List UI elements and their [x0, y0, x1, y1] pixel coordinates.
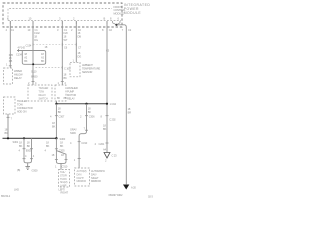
connector bracket over ground drops [23, 148, 34, 150]
wire W2 from pin 10 [32, 21, 34, 85]
svg-text:WASHER: WASHER [67, 86, 78, 90]
pin 10 tick [32, 21, 34, 24]
ground bus dot at 24 [23, 137, 25, 139]
svg-text:BK: BK [46, 144, 50, 148]
C134 tick on W4 [75, 43, 77, 46]
ground drop wire G1 [23, 138, 25, 158]
W10 connector bracket [85, 115, 88, 117]
merge arcs into box A [56, 160, 66, 170]
svg-text:1 C94: 1 C94 [110, 102, 117, 106]
svg-text:TRAILER: TRAILER [17, 99, 27, 103]
svg-text:C310: C310 [81, 141, 87, 145]
W9 continues below ground bus [55, 138, 57, 151]
svg-text:S110: S110 [31, 70, 37, 74]
svg-text:B300: B300 [26, 149, 32, 153]
W5 connector bracket2 [106, 142, 109, 144]
box B dashed [75, 168, 90, 186]
C134 tick on W2 [32, 43, 34, 46]
inline connector C100 dashed line [36, 67, 62, 69]
svg-text:SENSOR: SENSOR [82, 70, 92, 74]
svg-text:BK: BK [5, 131, 9, 135]
svg-text:(B): (B) [17, 168, 20, 172]
ground symbol [25, 166, 30, 170]
svg-text:LHD: LHD [14, 188, 19, 192]
svg-text:TEMPERATURE: TEMPERATURE [82, 67, 100, 71]
svg-text:BK: BK [64, 76, 68, 80]
wire W10 drop from bus at 86 [79, 104, 86, 168]
svg-text:DG: DG [34, 38, 38, 42]
branch bus at y103.7 [56, 103, 107, 105]
svg-text:DB: DB [9, 59, 13, 63]
ground drop wire G2 [31, 138, 33, 158]
svg-text:S301: S301 [13, 140, 19, 144]
wire W9 drop from bus at 56 [55, 104, 57, 139]
bus dot right on W5 [106, 103, 108, 105]
box A dashed [59, 170, 70, 188]
Y junction node dot [115, 24, 117, 26]
W10 tick at bend [85, 129, 88, 131]
W5 end triangle [104, 153, 110, 159]
svg-text:F20: F20 [64, 31, 69, 35]
svg-text:WT: WT [64, 38, 68, 42]
pin 2 tick [75, 21, 77, 24]
svg-text:C310: C310 [62, 164, 68, 168]
splice S110 dot [32, 63, 34, 65]
svg-text:TOW: TOW [17, 103, 23, 107]
branch tick right [65, 159, 68, 161]
wire W1 from pin 4 [9, 21, 11, 68]
pin 4 tick [9, 21, 11, 24]
bus dot mid [85, 103, 87, 105]
inline connector C134 dashed crossing line [33, 44, 76, 46]
svg-text:PUMP: PUMP [67, 90, 74, 94]
W9 connector bracket below bus [55, 148, 58, 150]
wire W5 from pin B [106, 21, 108, 152]
svg-text:C134: C134 [26, 44, 32, 48]
washer pump relay dashed box2 [55, 85, 66, 101]
svg-text:BK: BK [19, 144, 23, 148]
pin 3 tick [61, 21, 63, 24]
svg-text:DB: DB [78, 34, 82, 38]
W9 connector bracket [55, 115, 58, 117]
wire W8 out of trailer tow connector [7, 114, 9, 138]
svg-text:MIRROR: MIRROR [91, 179, 101, 183]
pin B tick [106, 21, 108, 24]
svg-text:BR: BR [128, 110, 132, 114]
svg-text:C 202: C 202 [109, 118, 116, 122]
fused b+ Y junction diagonals [113, 23, 121, 25]
svg-text:S300: S300 [60, 137, 66, 141]
svg-text:DG: DG [78, 54, 82, 58]
ground pin tick G2 [30, 158, 33, 160]
svg-text:BK: BK [52, 124, 56, 128]
integrated power module outer dashed box [3, 3, 122, 27]
ground merge arcs [24, 159, 32, 166]
W6 end triangle solid [123, 185, 129, 190]
svg-text:NIGHT: NIGHT [91, 176, 99, 180]
svg-text:C134: C134 [16, 53, 22, 57]
wire W3 from pin 3 [61, 21, 63, 85]
svg-text:CONNECTOR: CONNECTOR [17, 106, 33, 110]
svg-text:AMBIENT: AMBIENT [82, 63, 93, 67]
wire W4 from pin 2 [75, 21, 77, 62]
W7 source tick [18, 49, 20, 52]
svg-text:HI/LOW: HI/LOW [14, 73, 23, 77]
ground pin tick G1 [23, 158, 26, 160]
W1 pin tick into wiper relay box [9, 65, 12, 67]
svg-text:BK: BK [24, 59, 28, 63]
svg-text:MOTOR: MOTOR [67, 93, 76, 97]
wire W6 from Y junction to right and down [117, 25, 127, 185]
svg-text:FRONT: FRONT [114, 5, 123, 9]
pin 6 tick [119, 21, 121, 23]
svg-text:A 20: A 20 [131, 186, 136, 190]
W8 pin tick [7, 116, 10, 118]
svg-text:C 23: C 23 [112, 154, 118, 158]
wire W7 horizontal feed [17, 51, 46, 65]
svg-text:060297 9402: 060297 9402 [109, 193, 124, 197]
W9 left branch [55, 151, 57, 160]
W5 connector bracket [106, 115, 109, 117]
wiper relay dashed box [4, 68, 13, 84]
bus dot left [55, 103, 57, 105]
front control module inner bottom dashed line [8, 20, 121, 22]
svg-text:02-3: 02-3 [148, 195, 153, 199]
svg-text:BK: BK [103, 127, 107, 131]
svg-text:ADD ON: ADD ON [17, 110, 27, 114]
svg-text:AUTOMATIC: AUTOMATIC [91, 169, 105, 173]
svg-text:RELAY: RELAY [67, 97, 75, 101]
W10 pin tick [78, 158, 81, 160]
svg-text:DAY/: DAY/ [91, 172, 97, 176]
svg-text:MODULE: MODULE [124, 11, 142, 15]
splice bus [24, 63, 44, 65]
svg-text:F142: F142 [34, 31, 40, 35]
svg-text:RELAY: RELAY [14, 76, 22, 80]
C134 tick on W3 [61, 43, 63, 46]
svg-text:MODULE: MODULE [114, 12, 125, 16]
svg-text:BK: BK [27, 144, 31, 148]
svg-text:BK: BK [58, 110, 62, 114]
ground bus [3, 137, 57, 139]
W2 pin tick into box1 [32, 81, 35, 83]
svg-text:BK: BK [60, 144, 64, 148]
svg-text:S309: S309 [70, 131, 76, 135]
branch tick left [55, 159, 58, 161]
front control module inner dashed outline [8, 9, 112, 21]
svg-text:8W-53-2: 8W-53-2 [1, 194, 11, 198]
svg-text:BK: BK [88, 110, 92, 114]
W3 pin tick into relay [61, 81, 64, 83]
windshield washer relay dashed box1 [28, 85, 52, 101]
svg-text:LAMP: LAMP [60, 185, 67, 188]
trailer tow connector dashed box [4, 97, 16, 114]
svg-text:CONTROL: CONTROL [114, 8, 127, 12]
ground bus end dot [55, 137, 57, 139]
svg-text:MIRROR: MIRROR [77, 180, 87, 183]
svg-text:G300: G300 [32, 168, 39, 172]
svg-text:C201: C201 [99, 142, 105, 146]
ground bus dot at 8 [7, 137, 9, 139]
ambient temperature sensor dashed box [70, 62, 80, 77]
svg-text:BK: BK [41, 59, 45, 63]
svg-text:8W50: 8W50 [31, 75, 38, 79]
C100 tick on W3 [61, 66, 63, 69]
W10 connector bracket2 [78, 141, 81, 143]
svg-text:WIPER: WIPER [14, 69, 22, 73]
svg-text:C307: C307 [59, 115, 65, 119]
svg-text:4 F142: 4 F142 [18, 46, 26, 50]
svg-text:RIGHT: RIGHT [61, 190, 69, 194]
W7 drop at x22.3 [22, 51, 24, 65]
svg-text:SWITCH: SWITCH [39, 98, 48, 101]
pin 8 tick [112, 21, 114, 23]
bus stub from box2 [55, 101, 57, 104]
W9 split diagonal [56, 151, 66, 160]
svg-text:C306: C306 [89, 115, 95, 119]
